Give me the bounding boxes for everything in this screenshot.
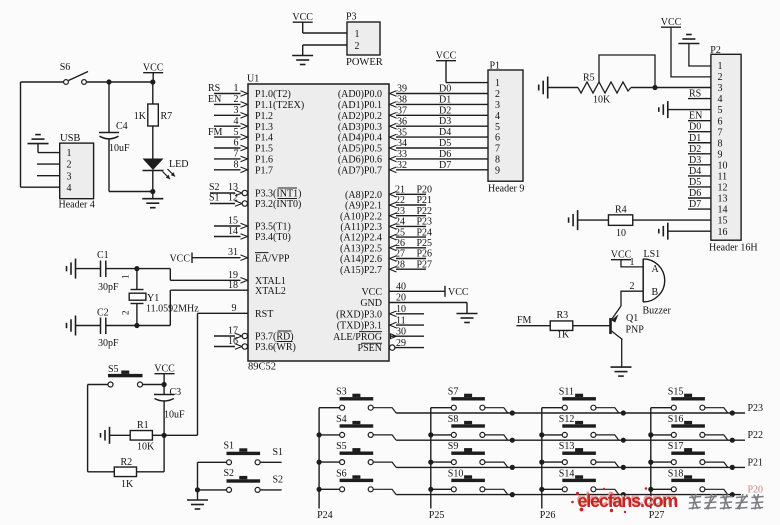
svg-text:S2: S2 (209, 182, 220, 193)
svg-text:R2: R2 (121, 457, 133, 468)
svg-text:POWER: POWER (346, 57, 383, 68)
svg-text:S13: S13 (559, 441, 575, 452)
svg-text:89C52: 89C52 (248, 362, 276, 373)
svg-text:P25: P25 (429, 510, 445, 520)
svg-text:4: 4 (234, 116, 239, 127)
svg-text:VCC: VCC (436, 51, 457, 62)
svg-text:(A13)P2.5: (A13)P2.5 (340, 243, 382, 254)
svg-text:8: 8 (718, 138, 723, 149)
svg-text:D6: D6 (689, 188, 701, 199)
svg-text:40: 40 (396, 282, 406, 293)
svg-text:B: B (652, 287, 659, 298)
svg-text:6: 6 (234, 138, 239, 149)
svg-text:P26: P26 (417, 249, 433, 260)
svg-text:Header 16H: Header 16H (709, 243, 758, 254)
svg-text:7: 7 (495, 144, 500, 155)
svg-text:6: 6 (718, 116, 723, 127)
svg-text:36: 36 (397, 116, 407, 127)
svg-text:1: 1 (355, 29, 360, 40)
svg-text:23: 23 (395, 206, 405, 217)
svg-text:P21: P21 (748, 457, 764, 468)
svg-text:D1: D1 (439, 94, 451, 105)
svg-text:7: 7 (234, 149, 239, 160)
svg-text:EN: EN (208, 94, 221, 105)
svg-text:FM: FM (517, 315, 532, 326)
svg-text:D2: D2 (439, 105, 451, 116)
svg-text:29: 29 (396, 338, 406, 349)
svg-text:2: 2 (234, 94, 239, 105)
svg-text:S5: S5 (108, 364, 119, 375)
svg-text:S16: S16 (668, 414, 684, 425)
svg-text:3: 3 (67, 171, 72, 182)
svg-text:8: 8 (495, 155, 500, 166)
svg-text:P24: P24 (317, 510, 333, 520)
svg-text:VCC: VCC (292, 12, 313, 23)
svg-text:S18: S18 (668, 468, 684, 479)
svg-text:EA/VPP: EA/VPP (255, 253, 290, 264)
svg-text:elecfans.com: elecfans.com (578, 491, 678, 511)
svg-text:D3: D3 (439, 116, 451, 127)
svg-text:R4: R4 (615, 205, 627, 216)
svg-text:S1: S1 (273, 447, 284, 458)
svg-text:A: A (652, 264, 660, 275)
svg-text:P1.3: P1.3 (255, 122, 273, 133)
svg-text:11: 11 (718, 172, 728, 183)
svg-text:(AD6)P0.6: (AD6)P0.6 (338, 155, 382, 166)
svg-text:PNP: PNP (626, 325, 645, 336)
svg-text:(A8)P2.0: (A8)P2.0 (345, 190, 382, 201)
svg-text:(AD0)P0.0: (AD0)P0.0 (338, 89, 382, 100)
svg-text:P1.1(T2EX): P1.1(T2EX) (255, 100, 304, 111)
svg-text:12: 12 (718, 183, 728, 194)
svg-text:P3.4(T0): P3.4(T0) (255, 232, 291, 243)
svg-text:RS: RS (208, 83, 220, 94)
svg-text:(A11)P2.3: (A11)P2.3 (340, 222, 382, 233)
svg-text:S17: S17 (668, 441, 684, 452)
svg-text:4: 4 (495, 111, 500, 122)
svg-text:4: 4 (67, 183, 72, 194)
svg-text:2: 2 (495, 89, 500, 100)
svg-text:2: 2 (355, 41, 360, 52)
svg-text:14: 14 (228, 226, 238, 237)
svg-text:(RXD)P3.0: (RXD)P3.0 (336, 309, 382, 320)
svg-text:11: 11 (396, 315, 406, 326)
svg-text:P21: P21 (417, 195, 433, 206)
svg-text:(A14)P2.6: (A14)P2.6 (340, 254, 382, 265)
svg-text:25: 25 (395, 227, 405, 238)
svg-text:S2: S2 (273, 475, 284, 486)
svg-text:S4: S4 (336, 414, 347, 425)
svg-text:D3: D3 (689, 155, 701, 166)
svg-text:VCC: VCC (611, 250, 632, 261)
svg-text:ALE/PROG: ALE/PROG (333, 332, 382, 343)
svg-text:(AD1)P0.1: (AD1)P0.1 (338, 100, 382, 111)
svg-text:S7: S7 (448, 387, 459, 398)
svg-text:D1: D1 (689, 133, 701, 144)
svg-text:P1.5: P1.5 (255, 144, 273, 155)
svg-text:LED: LED (169, 159, 188, 170)
svg-text:P27: P27 (649, 510, 665, 520)
svg-text:26: 26 (395, 238, 405, 249)
svg-text:C4: C4 (116, 121, 128, 132)
svg-text:3: 3 (718, 83, 723, 94)
svg-text:S8: S8 (448, 414, 459, 425)
svg-text:1: 1 (121, 275, 131, 280)
svg-text:P20: P20 (748, 485, 764, 496)
svg-text:15: 15 (228, 216, 238, 227)
svg-text:C3: C3 (170, 387, 182, 398)
svg-text:13: 13 (228, 182, 238, 193)
svg-text:D5: D5 (689, 177, 701, 188)
svg-text:14: 14 (718, 205, 728, 216)
svg-text:39: 39 (397, 84, 407, 95)
svg-text:10: 10 (396, 304, 406, 315)
svg-text:D6: D6 (439, 149, 451, 160)
svg-text:13: 13 (718, 194, 728, 205)
svg-text:D4: D4 (439, 127, 451, 138)
svg-text:2: 2 (630, 281, 635, 292)
svg-text:S11: S11 (559, 387, 574, 398)
svg-text:S15: S15 (668, 387, 684, 398)
svg-text:VCC: VCC (154, 364, 175, 375)
svg-text:33: 33 (397, 149, 407, 160)
svg-text:(AD2)P0.2: (AD2)P0.2 (338, 111, 382, 122)
svg-text:Header 4: Header 4 (59, 200, 95, 211)
svg-text:P1.4: P1.4 (255, 133, 273, 144)
svg-text:1K: 1K (121, 479, 134, 490)
svg-text:FM: FM (208, 127, 223, 138)
svg-text:17: 17 (228, 326, 238, 337)
svg-text:16: 16 (228, 336, 238, 347)
svg-text:P23: P23 (748, 403, 764, 414)
svg-text:S3: S3 (336, 387, 347, 398)
svg-text:GND: GND (360, 298, 382, 309)
svg-text:32: 32 (397, 160, 407, 171)
svg-text:D2: D2 (689, 144, 701, 155)
svg-text:2: 2 (718, 72, 723, 83)
svg-text:24: 24 (395, 217, 405, 228)
svg-text:(AD3)P0.3: (AD3)P0.3 (338, 122, 382, 133)
svg-text:LS1: LS1 (644, 249, 661, 260)
svg-text:USB: USB (60, 133, 80, 144)
svg-text:3: 3 (234, 105, 239, 116)
svg-text:EN: EN (689, 111, 702, 122)
svg-text:D0: D0 (439, 84, 451, 95)
svg-text:10: 10 (718, 160, 728, 171)
svg-text:12: 12 (228, 193, 238, 204)
svg-text:P2: P2 (710, 45, 721, 56)
svg-text:P3.7(RD): P3.7(RD) (255, 332, 294, 343)
svg-text:28: 28 (395, 259, 405, 270)
svg-text:S6: S6 (60, 62, 71, 73)
svg-text:10K: 10K (137, 442, 155, 453)
svg-text:5: 5 (495, 122, 500, 133)
svg-text:1: 1 (234, 83, 239, 94)
svg-text:(AD7)P0.7: (AD7)P0.7 (338, 165, 382, 176)
svg-text:2: 2 (67, 160, 72, 171)
svg-text:R3: R3 (557, 310, 569, 321)
svg-text:1: 1 (67, 148, 72, 159)
svg-text:R5: R5 (583, 73, 595, 84)
svg-text:22: 22 (395, 195, 405, 206)
svg-text:P3.5(T1): P3.5(T1) (255, 222, 291, 233)
svg-text:D4: D4 (689, 166, 701, 177)
svg-text:R7: R7 (161, 111, 173, 122)
svg-text:9: 9 (718, 149, 723, 160)
svg-text:(AD5)P0.5: (AD5)P0.5 (338, 144, 382, 155)
svg-text:(TXD)P3.1: (TXD)P3.1 (337, 321, 382, 332)
svg-text:30pF: 30pF (98, 282, 119, 293)
svg-text:1K: 1K (557, 330, 570, 341)
svg-text:21: 21 (395, 185, 405, 196)
svg-text:P22: P22 (417, 206, 433, 217)
svg-text:8: 8 (234, 160, 239, 171)
svg-text:10uF: 10uF (164, 410, 185, 421)
svg-text:P1.0(T2): P1.0(T2) (255, 89, 291, 100)
svg-text:D7: D7 (689, 199, 701, 210)
svg-text:11.0592MHz: 11.0592MHz (146, 304, 199, 315)
svg-text:10K: 10K (593, 95, 611, 106)
svg-text:D0: D0 (689, 122, 701, 133)
svg-text:RST: RST (255, 309, 273, 320)
svg-text:S14: S14 (559, 468, 575, 479)
svg-text:(A12)P2.4: (A12)P2.4 (340, 233, 382, 244)
svg-text:P27: P27 (417, 259, 433, 270)
svg-text:C2: C2 (97, 308, 109, 319)
svg-text:S10: S10 (448, 468, 464, 479)
svg-text:PSEN: PSEN (358, 343, 382, 354)
svg-text:P20: P20 (417, 185, 433, 196)
svg-text:U1: U1 (247, 74, 259, 85)
svg-text:30: 30 (396, 326, 406, 337)
svg-text:VCC: VCC (169, 254, 190, 265)
svg-text:10: 10 (616, 228, 626, 239)
svg-text:P1: P1 (490, 61, 501, 72)
svg-text:35: 35 (397, 127, 407, 138)
svg-text:VCC: VCC (661, 17, 682, 28)
svg-text:P3.2(INT0): P3.2(INT0) (255, 199, 301, 210)
svg-text:P25: P25 (417, 238, 433, 249)
svg-text:P22: P22 (748, 430, 764, 441)
svg-text:P24: P24 (417, 227, 433, 238)
svg-text:5: 5 (234, 127, 239, 138)
svg-text:(A9)P2.1: (A9)P2.1 (345, 201, 382, 212)
svg-text:P3.3(INT1): P3.3(INT1) (255, 189, 301, 200)
svg-text:38: 38 (397, 95, 407, 106)
svg-text:30pF: 30pF (98, 338, 119, 349)
svg-text:1: 1 (630, 257, 635, 268)
svg-text:9: 9 (495, 165, 500, 176)
svg-text:P26: P26 (540, 510, 556, 520)
svg-text:34: 34 (397, 138, 407, 149)
svg-text:37: 37 (397, 106, 407, 117)
svg-text:VCC: VCC (143, 63, 164, 74)
svg-text:18: 18 (228, 280, 238, 291)
svg-text:S5: S5 (336, 441, 347, 452)
svg-text:6: 6 (495, 133, 500, 144)
svg-text:1: 1 (495, 78, 500, 89)
svg-text:(AD4)P0.4: (AD4)P0.4 (338, 133, 382, 144)
svg-text:20: 20 (396, 293, 406, 304)
svg-text:P1.6: P1.6 (255, 155, 273, 166)
svg-text:S9: S9 (448, 441, 459, 452)
svg-text:R1: R1 (137, 420, 149, 431)
svg-text:D5: D5 (439, 138, 451, 149)
svg-text:16: 16 (718, 227, 728, 238)
svg-text:Y1: Y1 (147, 293, 159, 304)
svg-text:2: 2 (121, 311, 131, 316)
svg-text:27: 27 (395, 249, 405, 260)
svg-text:3: 3 (495, 100, 500, 111)
svg-text:S2: S2 (224, 468, 235, 479)
svg-text:D7: D7 (439, 160, 451, 171)
svg-text:7: 7 (718, 127, 723, 138)
svg-text:1K: 1K (134, 111, 147, 122)
svg-text:VCC: VCC (448, 287, 469, 298)
svg-text:9: 9 (232, 303, 237, 314)
svg-text:P23: P23 (417, 217, 433, 228)
svg-text:XTAL2: XTAL2 (255, 286, 286, 297)
svg-text:RS: RS (689, 89, 701, 100)
svg-text:S1: S1 (209, 193, 220, 204)
svg-text:P1.2: P1.2 (255, 111, 273, 122)
svg-text:10uF: 10uF (109, 143, 130, 154)
svg-text:4: 4 (718, 94, 723, 105)
svg-text:(A15)P2.7: (A15)P2.7 (340, 265, 382, 276)
svg-text:5: 5 (718, 105, 723, 116)
svg-text:15: 15 (718, 216, 728, 227)
svg-text:S1: S1 (224, 441, 235, 452)
svg-text:P1.7: P1.7 (255, 165, 273, 176)
svg-text:Buzzer: Buzzer (643, 306, 672, 317)
svg-text:31: 31 (228, 247, 238, 258)
svg-text:P3.6(WR): P3.6(WR) (255, 342, 296, 353)
svg-text:S6: S6 (336, 468, 347, 479)
svg-text:(A10)P2.2: (A10)P2.2 (340, 211, 382, 222)
svg-text:Q1: Q1 (626, 313, 638, 324)
svg-text:1: 1 (718, 61, 723, 72)
svg-text:C1: C1 (97, 250, 109, 261)
svg-text:P3: P3 (346, 12, 357, 23)
svg-text:S12: S12 (559, 414, 575, 425)
svg-text:Header 9: Header 9 (488, 184, 524, 195)
svg-text:VCC: VCC (361, 287, 382, 298)
